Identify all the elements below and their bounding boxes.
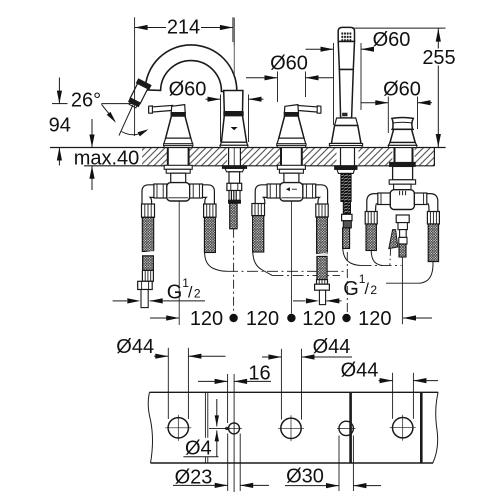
- divider seam right (thick): [420, 392, 423, 463]
- svg-text:/: /: [188, 285, 193, 302]
- svg-text:120: 120: [302, 308, 335, 330]
- dimension diameter 60 diverter escutcheon: [361, 78, 433, 133]
- G1/2 label for left supply hose: [113, 276, 205, 304]
- left valve body with elbows below deck: [142, 165, 214, 204]
- svg-text:255: 255: [422, 47, 455, 69]
- G1/2 end fitting on left supply hose: [138, 270, 154, 307]
- spout connection stud and hose below deck: [222, 166, 246, 314]
- shower hose routing line: [361, 264, 402, 266]
- diverter valve assembly below deck: [367, 162, 438, 211]
- divider seam middle (thick): [349, 392, 352, 463]
- svg-text:120: 120: [246, 308, 279, 330]
- hole diameter 30: [337, 421, 355, 435]
- dimension diameter 60 spout base: [169, 79, 264, 143]
- flexible supply hose left of left valve: [141, 204, 155, 270]
- svg-text:Ø60: Ø60: [169, 79, 207, 101]
- G1/2 label for right supply hose: [293, 272, 377, 303]
- svg-text:Ø60: Ø60: [373, 29, 411, 51]
- svg-text:2: 2: [370, 283, 377, 297]
- routing line from left valve right hose: [227, 270, 346, 272]
- 26 degree spout angle annotation: [71, 39, 149, 137]
- svg-text:Ø30: Ø30: [286, 466, 324, 488]
- dimension diameter 44 left: [116, 336, 225, 419]
- hole diameter 23: [226, 423, 242, 434]
- svg-text:max.40: max.40: [74, 147, 140, 169]
- leader from G1/2 label to diverter hose: [386, 282, 420, 284]
- hole diameter 44 middle: [278, 415, 304, 441]
- svg-text:Ø60: Ø60: [270, 53, 308, 75]
- dimension diameter 23: [173, 434, 269, 492]
- dimension diameter 60 hot valve escutcheon: [246, 53, 334, 103]
- bath spout with arched outlet: [126, 18, 248, 172]
- svg-text:Ø44: Ø44: [313, 336, 351, 358]
- right diverter knob above deck: [388, 118, 416, 148]
- svg-text:120: 120: [190, 308, 223, 330]
- dimension 214 (spout reach): [135, 16, 233, 42]
- dimension diameter 30: [285, 436, 381, 492]
- divider seam left (double line): [205, 392, 207, 463]
- right hose of left valve: [204, 204, 227, 271]
- left hose of hot valve: [252, 204, 273, 276]
- left hose of diverter: [365, 212, 382, 266]
- svg-text:26°: 26°: [71, 90, 101, 112]
- left handle (cold valve) above deck: [149, 105, 193, 148]
- dimension 16 (pilot hole offset): [198, 362, 271, 492]
- svg-text:/: /: [365, 281, 370, 298]
- tilted hose protection cone (shower hose end): [389, 230, 398, 265]
- svg-text:120: 120: [358, 308, 391, 330]
- dimension diameter 44 middle: [262, 336, 352, 420]
- dimension diameter 4 annotation: [183, 399, 230, 460]
- routing line from hot valve left hose: [273, 275, 341, 277]
- middle-right handle (hot valve) above deck: [277, 105, 321, 148]
- svg-text:G: G: [167, 282, 183, 304]
- svg-text:G: G: [343, 278, 359, 300]
- shower centerline to dimension dot: [346, 252, 348, 314]
- hole diameter 44 left: [165, 415, 191, 441]
- tub deck plan strip: [148, 392, 438, 463]
- dimension 255 (shower height): [352, 28, 456, 147]
- dimension 94 (spout outlet height): [49, 78, 71, 166]
- hand shower shank and hose below deck: [335, 166, 361, 266]
- svg-text:Ø60: Ø60: [383, 78, 421, 100]
- 120 spacing dimension row: [150, 202, 432, 330]
- pilot hole diameter 4: [226, 427, 228, 429]
- svg-text:2: 2: [194, 287, 201, 301]
- max.40 deck thickness dimension: [74, 119, 140, 190]
- dimension diameter 60 shower holder: [306, 29, 411, 125]
- dimension diameter 44 right: [341, 359, 438, 418]
- shank side walls through deck: [168, 148, 413, 166]
- svg-text:214: 214: [167, 16, 200, 38]
- mounting deck (hatched cross-section): [50, 148, 446, 166]
- hand shower in holder: [329, 27, 362, 147]
- right hose of hot valve with G1/2 fitting: [315, 204, 330, 305]
- svg-text:94: 94: [49, 115, 71, 137]
- svg-text:Ø44: Ø44: [341, 359, 379, 381]
- shower hose outlet below diverter: [396, 215, 409, 324]
- hole diameter 44 right: [390, 415, 416, 441]
- svg-text:Ø44: Ø44: [116, 336, 154, 358]
- right hose of diverter: [420, 212, 440, 284]
- hot valve body with elbows below deck: [255, 165, 327, 204]
